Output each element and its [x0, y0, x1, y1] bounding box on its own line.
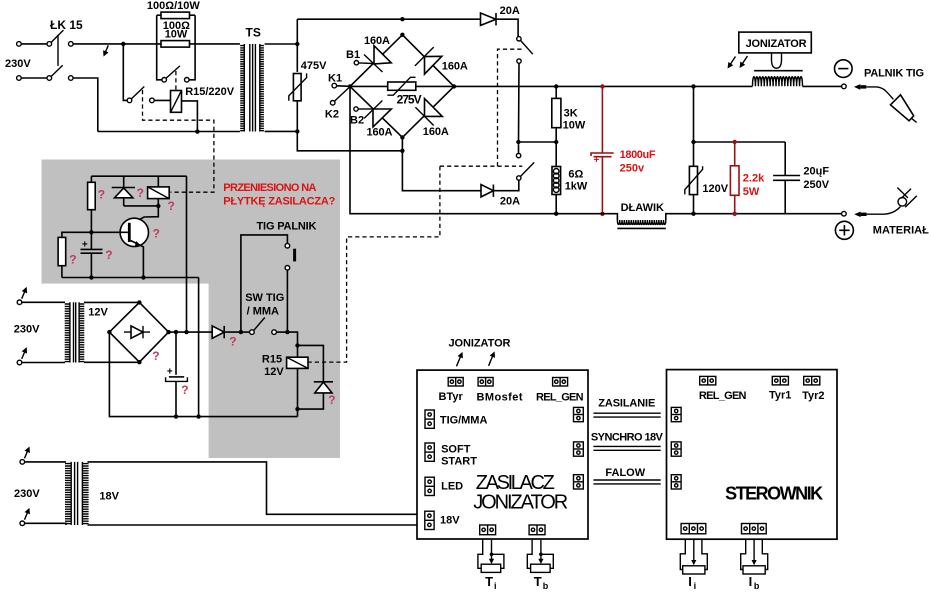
node cap at rail — [174, 414, 178, 418]
svg-text:PALNIK TIG: PALNIK TIG — [864, 68, 924, 80]
svg-text:230V: 230V — [14, 324, 40, 336]
dashed actuation link contacts A+B to relay R15 12V — [498, 49, 522, 166]
wire relay coil to neutral rail — [182, 101, 198, 132]
svg-text:?: ? — [152, 349, 159, 363]
svg-text:/ MMA: / MMA — [247, 305, 279, 317]
svg-text:250v: 250v — [620, 163, 645, 175]
svg-text:160A: 160A — [442, 61, 468, 73]
svg-text:?: ? — [69, 252, 76, 266]
svg-text:ŁK 15: ŁK 15 — [50, 18, 83, 32]
terminal material — [842, 211, 847, 216]
soft-start network right rail — [189, 15, 195, 80]
plug terminal 4 — [20, 521, 25, 526]
transformer 12V primary — [65, 302, 70, 362]
wire rail to TIG terminal — [803, 85, 842, 87]
node collector junction — [156, 204, 160, 208]
thyristor 160A bottom-left — [373, 109, 391, 127]
connector SOFT START — [425, 443, 434, 461]
wire contact to relay coil R15/220V — [154, 99, 170, 101]
svg-text:ZASILANIE: ZASILANIE — [598, 398, 655, 410]
node bridge bottom vertex — [400, 135, 404, 139]
svg-text:?: ? — [98, 187, 105, 201]
node output branch top — [691, 84, 695, 88]
potentiometer Tb — [527, 540, 553, 573]
resistor 100ohm/10W upper stubs — [157, 14, 161, 16]
svg-text:475V: 475V — [301, 60, 327, 72]
svg-text:1800uF: 1800uF — [620, 149, 656, 161]
node bridge top tap — [400, 17, 404, 21]
svg-text:i: i — [494, 581, 497, 591]
arrow to torch — [854, 84, 860, 90]
node rect left — [107, 330, 111, 334]
capacitor 20uF 250V — [784, 142, 786, 176]
wire relay to 0V rail — [297, 409, 299, 417]
dashed link contact to R15/220V coil — [175, 71, 177, 90]
node relay bottom — [295, 407, 299, 411]
wires ZASILANIE — [593, 412, 660, 414]
minus symbol — [835, 60, 853, 78]
svg-text:T: T — [534, 574, 542, 589]
connector ZASILANIE left sterownik — [671, 407, 681, 421]
connector BTyr — [448, 378, 463, 387]
bridge symbol diode — [124, 331, 150, 333]
wire base node left — [62, 232, 92, 237]
svg-text:SW TIG: SW TIG — [245, 292, 284, 304]
svg-text:B2: B2 — [350, 115, 364, 127]
torch tip — [911, 118, 916, 122]
svg-text:I: I — [688, 574, 692, 589]
svg-text:275V: 275V — [397, 93, 422, 107]
node 120V bottom — [691, 212, 695, 216]
relay contact A — [517, 37, 521, 41]
wire plug to transformer — [22, 301, 65, 303]
switch LK15 blade pole2 — [51, 65, 63, 76]
base wire — [91, 231, 128, 233]
wire 18V secondary bottom to box — [88, 524, 418, 526]
node rail at DC- — [196, 414, 200, 418]
wire 18V secondary top to box — [88, 462, 418, 514]
svg-text:SOFT: SOFT — [441, 444, 471, 456]
svg-text:DŁAWIK: DŁAWIK — [621, 202, 664, 214]
thyristor 160A bottom-right — [425, 99, 443, 117]
capacitor 12V smoothing — [175, 332, 177, 375]
connector Ib bottom — [742, 524, 767, 534]
wire driver +12V top rail — [91, 175, 186, 177]
wire +12V feed down to DC+ — [186, 176, 188, 332]
svg-text:?: ? — [181, 383, 188, 397]
transformer 12V secondary — [79, 302, 84, 362]
wire DC+ rail — [454, 85, 753, 87]
connector REL_GEN sterownik — [700, 376, 716, 385]
spark arrows — [729, 57, 736, 68]
svg-text:JONIZATOR: JONIZATOR — [473, 492, 568, 514]
gray region rect A (moved-to-board highlight) — [42, 160, 341, 284]
svg-text:TS: TS — [246, 26, 261, 40]
connector Tyr2 — [804, 376, 820, 385]
svg-text:12V: 12V — [264, 366, 284, 378]
svg-text:20A: 20A — [500, 196, 520, 208]
svg-text:120V: 120V — [702, 183, 728, 195]
transformer 18V primary — [65, 462, 71, 525]
gate B1 — [354, 61, 358, 65]
wire phase to junction — [73, 43, 123, 45]
svg-text:160A: 160A — [367, 127, 393, 139]
svg-text:10W: 10W — [563, 120, 586, 132]
plug terminal 2 — [17, 360, 22, 365]
wire to relay R15 12V — [287, 332, 297, 345]
node 6ohm bottom — [554, 212, 558, 216]
svg-text:10W: 10W — [165, 29, 188, 41]
varistor 120V — [689, 166, 697, 194]
svg-text:K2: K2 — [325, 109, 339, 121]
node 1800uF bottom (red) — [600, 212, 604, 216]
svg-text:BMosfet: BMosfet — [477, 391, 523, 403]
node branch mid — [691, 140, 695, 144]
connector Tyr1 — [772, 376, 788, 385]
capacitor 1800uF 250v (red) — [601, 86, 603, 153]
plug terminal 1 — [17, 300, 22, 305]
wire parallel group top — [694, 141, 786, 143]
node 2.2k bottom (red) — [733, 212, 737, 216]
arrow to clamp — [854, 212, 860, 218]
connector FALOW right — [574, 475, 584, 489]
svg-text:TIG/MMA: TIG/MMA — [440, 415, 488, 427]
wire diode to contact A — [496, 19, 518, 36]
node emitter-rail — [141, 275, 145, 279]
switch LK15 pole2 terminals — [17, 76, 22, 81]
node 2.2k top (red) — [733, 140, 737, 144]
svg-text:b: b — [543, 581, 549, 591]
svg-text:100Ω/10W: 100Ω/10W — [147, 0, 200, 12]
svg-text:250V: 250V — [803, 179, 829, 191]
diode feed SW — [212, 326, 224, 338]
wire driver 0V rail — [62, 277, 199, 279]
node bridge right vertex — [452, 84, 456, 88]
node base junction — [89, 230, 93, 234]
wire 0V rail down to DC- — [198, 278, 200, 417]
wire mains bottom rail — [98, 131, 240, 133]
svg-text:12V: 12V — [88, 307, 108, 319]
wire junction to 3K bottom — [518, 141, 556, 143]
wire branch down — [693, 86, 695, 166]
terminal palnik tig — [842, 84, 847, 89]
svg-text:3K: 3K — [564, 108, 578, 120]
wire bottom rail to output — [666, 214, 842, 220]
wire plug to 18V transformer — [25, 461, 66, 463]
connector LED — [425, 477, 434, 495]
svg-text:R15/220V: R15/220V — [185, 86, 235, 98]
transformer 12V core — [73, 302, 75, 362]
svg-text:18V: 18V — [440, 515, 460, 527]
svg-text:18V: 18V — [99, 491, 119, 503]
svg-text:LED: LED — [441, 481, 463, 493]
relay coil R15/220V — [171, 91, 182, 113]
clamp cable — [867, 207, 901, 215]
diode 20A bottom — [481, 185, 493, 197]
node rect right — [166, 330, 170, 334]
torch body — [891, 95, 914, 121]
resistor 6ohm 1kW — [555, 142, 557, 167]
wire neutral down — [73, 78, 98, 132]
bridge arm top-right — [402, 35, 454, 87]
wire left vertex down and across — [350, 86, 556, 213]
bridge arm bottom-right — [402, 86, 454, 137]
resistor 2.2k 5W (red) — [734, 142, 736, 166]
wire DC- down to bottom rail — [109, 332, 297, 417]
node bridge left vertex — [348, 84, 352, 88]
pointer arrows — [457, 354, 462, 367]
svg-text:JONIZATOR: JONIZATOR — [449, 337, 511, 349]
capacitor timing — [81, 248, 103, 250]
svg-text:+: + — [594, 155, 600, 166]
relay coil R15 12V — [297, 345, 299, 357]
node 1800uF top (red) — [600, 84, 604, 88]
svg-text:STEROWNIK: STEROWNIK — [725, 483, 823, 503]
svg-text:?: ? — [153, 227, 160, 241]
box ZASILACZ JONIZATOR — [417, 370, 588, 539]
wire TS secondary bottom — [265, 130, 298, 132]
connector Ii bottom — [681, 524, 706, 534]
connector TIG/MMA — [425, 410, 434, 428]
wire main through lower resistor — [123, 43, 161, 45]
svg-text:TIG PALNIK: TIG PALNIK — [257, 221, 317, 233]
wire bridge bottom to 20A diode — [402, 137, 481, 190]
svg-text:?: ? — [328, 393, 335, 407]
node bridge top vertex — [400, 33, 404, 37]
switch LK15 blade pole1 — [51, 30, 63, 42]
arrow annotation near junction — [104, 45, 108, 55]
relay coil (driver) — [157, 176, 159, 187]
svg-text:160A: 160A — [423, 126, 449, 138]
wire junction down to relay contact K — [123, 44, 127, 101]
svg-text:20ųF: 20ųF — [803, 166, 829, 178]
svg-text:+: + — [167, 367, 173, 378]
svg-text:PRZENIESIONO NA: PRZENIESIONO NA — [223, 182, 316, 194]
wires FALOW — [593, 479, 660, 481]
node cap branch — [174, 330, 178, 334]
flyback diode (zener) — [123, 176, 125, 187]
choke DLAWIK — [617, 220, 665, 225]
torch cable — [866, 87, 893, 99]
svg-text:MATERIAŁ: MATERIAŁ — [873, 224, 929, 236]
node rect bottom — [137, 360, 141, 364]
svg-text:B1: B1 — [346, 49, 360, 61]
svg-text:I: I — [749, 574, 753, 589]
wire mains top left — [21, 43, 47, 45]
varistor 475V — [296, 44, 298, 72]
diode 20A top — [481, 13, 497, 25]
emitter — [131, 241, 144, 278]
jonizator box — [739, 32, 812, 53]
wire diode to relay bottom junction — [124, 205, 159, 207]
svg-text:REL_GEN: REL_GEN — [536, 391, 584, 403]
resistor 100ohm/10W (upper) — [161, 12, 190, 19]
gate B2 — [354, 107, 358, 111]
resistor R? (base divider) — [58, 237, 66, 265]
svg-text:5W: 5W — [743, 186, 760, 198]
connector ZASILANIE right — [574, 407, 584, 421]
transistor NPN — [120, 218, 148, 246]
resistor R? (base pull-up) — [90, 176, 92, 182]
wire secondary top up — [296, 19, 298, 44]
box STEROWNIK — [667, 370, 838, 540]
gray region rect B — [209, 160, 340, 459]
node at bridge bottom vertical — [400, 149, 404, 153]
plus symbol — [835, 221, 853, 239]
node cap-rail — [89, 275, 93, 279]
wire secondary to rectifier — [84, 301, 139, 303]
terminal K2 — [330, 101, 335, 106]
node coil-neutral junction — [195, 129, 199, 133]
rectifier bridge diamond — [109, 302, 168, 362]
connector 18V — [425, 511, 434, 529]
svg-text:+: + — [82, 240, 88, 251]
switch LK15 mechanical link — [57, 35, 59, 66]
choke core line — [617, 227, 665, 229]
svg-text:BTyr: BTyr — [439, 391, 464, 403]
node rect top — [137, 300, 141, 304]
svg-text:T: T — [485, 574, 493, 589]
soft-start bypass contact — [162, 78, 167, 83]
node TIG loop left — [239, 330, 243, 334]
bridge arm bottom-left — [350, 86, 402, 137]
wire TS secondary top — [265, 43, 298, 45]
spark gap below box — [772, 53, 782, 68]
soft-start network left rail — [157, 15, 162, 80]
varistor 275V across bridge — [350, 85, 388, 87]
node feed at DC+ — [184, 330, 188, 334]
connector REL_GEN zasilacz — [553, 378, 568, 387]
wire collector — [131, 206, 159, 224]
resistor 100ohm 10W (lower, in series with mains) — [161, 41, 190, 48]
wire DC+ to diode — [169, 331, 213, 333]
connector Ti bottom — [480, 525, 496, 535]
flyback diode R15 — [298, 345, 324, 381]
dashed actuation link to gray relay driver — [143, 90, 214, 192]
svg-text:?: ? — [137, 186, 144, 200]
plug terminal 3 — [20, 460, 25, 465]
svg-text:SYNCHRO 18V: SYNCHRO 18V — [591, 432, 664, 444]
svg-text:b: b — [754, 581, 760, 591]
svg-text:?: ? — [105, 248, 112, 262]
resistor 3K 10W — [555, 86, 557, 98]
wire secondary bottom to bridge bottom — [297, 131, 402, 150]
bridge arm top-left — [350, 35, 402, 87]
potentiometer Ib — [741, 539, 768, 574]
connector FALOW left sterownik — [671, 475, 681, 489]
wire mains bottom left — [21, 77, 47, 79]
switch LK15 pole1 terminals — [17, 42, 22, 47]
svg-text:?: ? — [229, 334, 236, 348]
node 3K top — [554, 84, 558, 88]
node junction phase — [121, 42, 125, 46]
svg-text:R15: R15 — [262, 353, 282, 365]
svg-text:6Ω: 6Ω — [568, 169, 583, 181]
svg-text:REL_GEN: REL_GEN — [699, 390, 747, 402]
wires SYNCHRO — [593, 445, 660, 447]
node secondary top — [295, 42, 299, 46]
thyristor 160A top-left — [374, 46, 391, 64]
transformer TS secondary coil — [260, 44, 264, 132]
transformer TS core — [249, 44, 251, 132]
node relay top — [295, 343, 299, 347]
svg-text:160A: 160A — [364, 35, 390, 47]
transformer 18V core — [74, 462, 76, 525]
svg-text:FALOW: FALOW — [605, 467, 645, 479]
node secondary bottom — [295, 129, 299, 133]
connector BMosfet — [478, 378, 493, 387]
HF transformer secondary coil on rail — [753, 77, 803, 87]
terminal K1 — [332, 83, 337, 88]
svg-text:Tyr1: Tyr1 — [769, 390, 791, 402]
wire top rail — [297, 18, 480, 20]
transformer TS primary coil — [240, 44, 244, 132]
svg-text:START: START — [441, 455, 477, 467]
svg-text:20A: 20A — [500, 5, 520, 17]
node button-switch join — [285, 330, 289, 334]
wire contact A down — [518, 63, 521, 142]
svg-text:JONIZATOR: JONIZATOR — [746, 38, 807, 50]
connector SYNCHRO right — [574, 442, 584, 456]
relay contact B — [516, 153, 520, 157]
wire contact B down to 20A bottom diode — [493, 180, 518, 191]
svg-text:i: i — [694, 581, 697, 591]
node contact junction — [516, 140, 520, 144]
wire bottom rail (dlawik section) — [556, 214, 617, 220]
svg-text:230V: 230V — [14, 488, 40, 500]
svg-text:K1: K1 — [328, 73, 342, 85]
thyristor 160A top-right — [425, 56, 442, 74]
svg-text:2.2k: 2.2k — [743, 173, 765, 185]
HF transformer core bar — [754, 70, 803, 72]
svg-text:Tyr2: Tyr2 — [802, 390, 824, 402]
svg-text:1kW: 1kW — [565, 181, 588, 193]
connector Tb bottom — [529, 525, 545, 535]
svg-text:230V: 230V — [5, 58, 31, 70]
earth clamp — [898, 198, 907, 207]
transformer 18V secondary — [82, 462, 88, 525]
switch SW TIG/MMA — [241, 331, 250, 333]
connector SYNCHRO left sterownik — [671, 442, 681, 456]
potentiometer Ti — [478, 540, 504, 573]
relay contact (mains, controlled by 12V relay driver) — [127, 98, 132, 103]
svg-text:PŁYTKĘ ZASILACZA?: PŁYTKĘ ZASILACZA? — [223, 195, 335, 207]
push button TIG — [285, 243, 290, 248]
potentiometer Ii — [680, 539, 707, 574]
svg-text:?: ? — [168, 199, 175, 213]
wire button loop — [241, 235, 288, 332]
